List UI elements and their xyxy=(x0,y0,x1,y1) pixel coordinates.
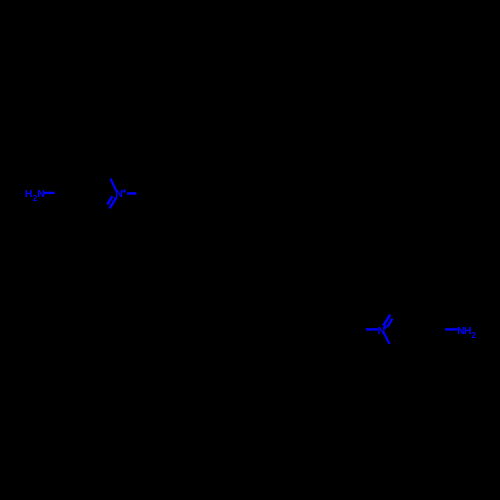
bond N+-C (single, lower-right of right N+) xyxy=(383,331,390,344)
double bond N+=C line 1 (right fragment, up-right) xyxy=(383,315,390,326)
atom label N+ (left quaternary nitrogen) xyxy=(115,188,126,200)
bond N+-CH3 (blue half, horizontal right) xyxy=(127,192,136,195)
atom label H2N (left amine nitrogen) xyxy=(25,188,45,203)
bond C-NH2 (blue half, horizontal, right amine) xyxy=(445,328,457,330)
atom label NH2 (right amine nitrogen) xyxy=(457,325,476,340)
svg-text:H: H xyxy=(25,188,33,200)
double bond N+=C line 2 (right fragment, up-right) xyxy=(387,319,392,327)
double bond C=N+ line 1 (left fragment) xyxy=(110,197,117,208)
bond C-N+ (single, upper-left of left N+) xyxy=(110,179,117,192)
svg-text:H: H xyxy=(464,325,472,337)
double bond C=N+ line 2 (left fragment) xyxy=(107,196,112,204)
svg-text:2: 2 xyxy=(471,331,476,340)
bond CH3-N+ (blue half, horizontal, right fragment) xyxy=(366,328,378,330)
bond H2N-C (blue half, horizontal) xyxy=(44,192,55,194)
atom label N+ (right quaternary nitrogen) xyxy=(378,325,388,337)
